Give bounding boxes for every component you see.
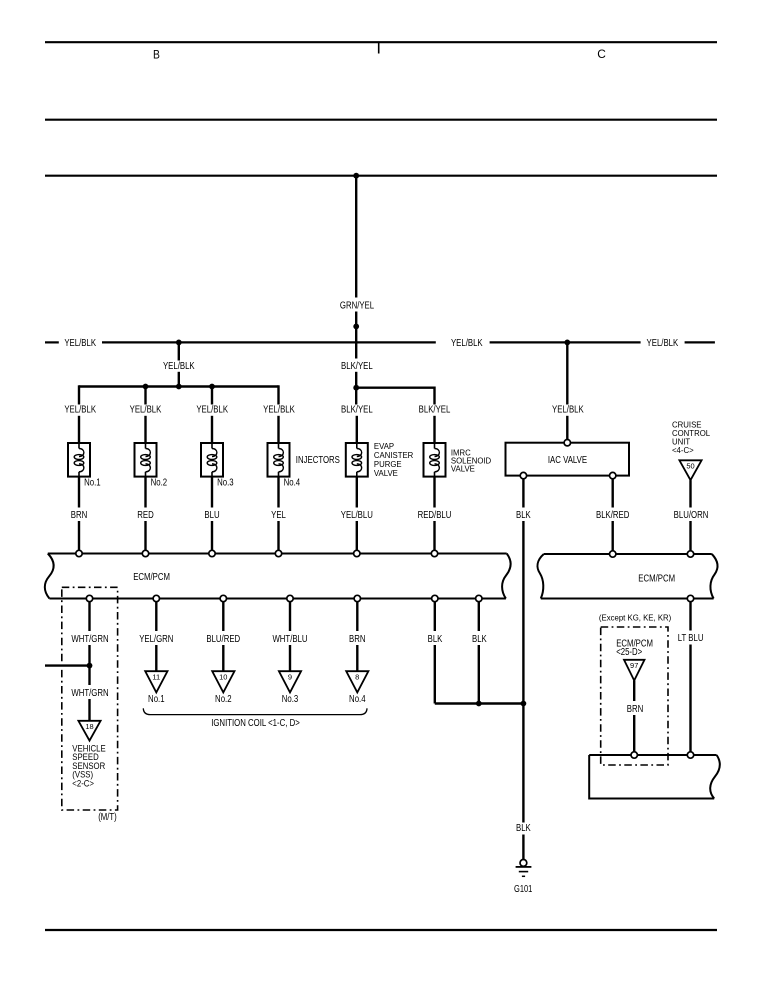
svg-text:YEL/BLK: YEL/BLK (64, 405, 96, 416)
svg-text:C: C (597, 47, 606, 61)
svg-text:WHT/BLU: WHT/BLU (272, 634, 307, 645)
YEL/BLK bus segment 2 (102, 341, 436, 343)
injector coil No.4 (268, 443, 290, 477)
svg-text:WHT/GRN: WHT/GRN (71, 634, 108, 645)
ground symbol G101 (516, 860, 532, 877)
wire BLK/RED from IAC valve (612, 479, 614, 508)
wire BLK to ground (522, 704, 524, 823)
junction BLK/YEL branch (353, 385, 359, 391)
svg-text:No.1: No.1 (148, 694, 165, 705)
YEL/BLK bus: left stub (45, 341, 59, 343)
wire BLK/YEL continues to branch junction (355, 372, 357, 388)
svg-text:No.3: No.3 (217, 478, 234, 489)
wire BLU from coil to ECM/PCM (211, 477, 213, 508)
wire YEL/BLU from coil to ECM/PCM (356, 477, 358, 508)
wire BRN from coil to ECM/PCM (78, 477, 80, 508)
wire drop to EVAP valve (355, 388, 357, 405)
pin ECM/PCM top (No.4 injector) (275, 550, 281, 556)
svg-text:ECM/PCM: ECM/PCM (638, 574, 675, 585)
page rule 2 (45, 119, 717, 121)
svg-text:GRN/YEL: GRN/YEL (340, 300, 375, 311)
wire BLK (right) from ECM/PCM (478, 602, 480, 631)
pin bottom-right box (LT BLU) (687, 752, 693, 758)
connector triangle 11 (ignition coil No.1) (145, 671, 167, 692)
svg-text:(Except KG, KE, KR): (Except KG, KE, KR) (599, 614, 672, 623)
pin ECM/PCM right bottom (LT BLU) (687, 595, 693, 601)
pin ECM/PCM top (EVAP) (354, 550, 360, 556)
svg-text:(M/T): (M/T) (98, 812, 117, 823)
svg-text:BLK: BLK (516, 510, 531, 521)
svg-text:18: 18 (85, 724, 93, 731)
svg-text:PURGE: PURGE (374, 460, 402, 469)
svg-text:VALVE: VALVE (451, 464, 475, 473)
wire YEL/GRN to ignition coil No.1 (155, 602, 157, 631)
pin ECM/PCM bottom (ignition coil No.3) (287, 595, 293, 601)
svg-text:BLK: BLK (516, 823, 531, 834)
injector coil No.1 (68, 443, 90, 477)
svg-text:CANISTER: CANISTER (374, 451, 414, 460)
ECM/PCM box (left) (45, 554, 511, 599)
svg-text:WHT/GRN: WHT/GRN (71, 688, 108, 699)
svg-text:No.4: No.4 (349, 694, 366, 705)
connector triangle 9 (ignition coil No.3) (279, 671, 301, 692)
junction injector No.3 (209, 384, 215, 390)
pin ECM/PCM top (No.3 injector) (209, 550, 215, 556)
wire BRN from connector 97 (633, 681, 635, 702)
wire YEL from coil to ECM/PCM (277, 477, 279, 508)
wire BRN to ignition coil No.4 (356, 602, 358, 631)
junction with IAC BLK wire (521, 701, 527, 707)
IMRC solenoid valve coil (424, 443, 446, 477)
wire joining BLK grounds (435, 702, 524, 704)
wire WHT/GRN from ECM/PCM (88, 602, 90, 631)
svg-text:50: 50 (686, 464, 694, 471)
svg-text:BLU/RED: BLU/RED (206, 634, 240, 645)
svg-text:No.3: No.3 (282, 694, 299, 705)
svg-text:YEL/GRN: YEL/GRN (139, 634, 173, 645)
svg-text:9: 9 (288, 675, 292, 682)
wire into injector coil (277, 416, 279, 443)
pin ECM/PCM bottom (VSS WHT/GRN) (86, 595, 92, 601)
pin IAC valve bottom right (610, 472, 616, 478)
svg-text:No.2: No.2 (151, 478, 168, 489)
svg-text:No.2: No.2 (215, 694, 232, 705)
connector triangle 50 (cruise control unit) (679, 460, 701, 480)
pin ECM/PCM bottom (BLK ground 1) (432, 595, 438, 601)
svg-text:YEL/BLK: YEL/BLK (64, 338, 96, 349)
dash-dot option box (Except KG, KE, KR) (601, 627, 668, 765)
header tick between B and C (378, 42, 380, 53)
svg-text:RED: RED (137, 510, 154, 521)
svg-text:YEL/BLK: YEL/BLK (552, 405, 584, 416)
svg-text:BLK/RED: BLK/RED (596, 510, 629, 521)
pin ECM/PCM bottom (BLK ground 2) (476, 595, 482, 601)
junction feed point (176, 384, 182, 390)
pin ECM/PCM bottom (ignition coil No.4) (354, 595, 360, 601)
junction on bus at GRN/YEL tap (353, 173, 359, 179)
junction dot above YEL/BLK bus (353, 324, 359, 330)
svg-text:B: B (153, 47, 160, 61)
wire WHT/GRN continues (88, 666, 90, 685)
injector coil No.3 (201, 443, 223, 477)
svg-text:BLK/YEL: BLK/YEL (341, 361, 373, 372)
wire RED from coil to ECM/PCM (144, 477, 146, 508)
svg-text:<4-C>: <4-C> (672, 446, 694, 455)
wire GRN/YEL vertical from bus (355, 176, 357, 298)
label ECM/PCM <25-D> (616, 639, 653, 658)
svg-text:No.1: No.1 (84, 478, 101, 489)
svg-text:<25-D>: <25-D> (616, 647, 642, 658)
svg-text:No.4: No.4 (284, 478, 301, 489)
svg-text:97: 97 (630, 663, 638, 670)
svg-text:BRN: BRN (71, 510, 88, 521)
injector coil No.2 (135, 443, 157, 477)
page rule top (row B/C header line) (45, 41, 717, 43)
wire WHT/BLU to ignition coil No.3 (289, 602, 291, 631)
svg-text:G101: G101 (514, 884, 533, 895)
wire BLU/RED to ignition coil No.2 (222, 602, 224, 631)
junction injector No.2 (143, 384, 149, 390)
svg-text:BLK: BLK (472, 634, 487, 645)
junction BLK right (476, 701, 482, 707)
wire into IMRC coil (433, 416, 435, 443)
stub wire to page left (45, 664, 90, 666)
pin ECM/PCM right top (BLU/ORN) (687, 551, 693, 557)
svg-text:YEL: YEL (271, 510, 286, 521)
IAC valve feed wire YEL/BLK (566, 342, 568, 404)
corner drop injector No.1 (78, 385, 80, 404)
pin ECM/PCM top (No.2 injector) (142, 550, 148, 556)
junction: IAC valve feed tap (564, 340, 570, 346)
pin ECM/PCM top (IMRC) (431, 550, 437, 556)
svg-text:11: 11 (152, 675, 160, 682)
YEL/BLK bus right stub (685, 341, 715, 343)
wire RED/BLU from coil to ECM/PCM (433, 477, 435, 508)
pin ECM/PCM bottom (ignition coil No.2) (220, 595, 226, 601)
svg-text:BRN: BRN (627, 704, 644, 715)
junction: injector feed tap (176, 340, 182, 346)
svg-text:<2-C>: <2-C> (72, 779, 94, 790)
page rule bottom (45, 929, 717, 931)
svg-text:8: 8 (355, 675, 359, 682)
label CRUISE CONTROL UNIT <4-C> (672, 421, 711, 456)
svg-text:BLK: BLK (428, 634, 443, 645)
svg-text:YEL/BLK: YEL/BLK (130, 405, 162, 416)
pin bottom-right box (BRN) (631, 752, 637, 758)
connector triangle 18 (VSS) (78, 721, 100, 741)
svg-text:RED/BLU: RED/BLU (418, 510, 452, 521)
label VEHICLE SPEED SENSOR (VSS) <2-C> (72, 743, 105, 789)
svg-text:YEL/BLK: YEL/BLK (196, 405, 228, 416)
wire into injector coil (78, 416, 80, 443)
wire into EVAP coil (356, 416, 358, 443)
svg-text:ECM/PCM: ECM/PCM (133, 572, 170, 583)
wire BLK from IAC valve (522, 479, 524, 508)
svg-text:BLK/YEL: BLK/YEL (419, 405, 451, 416)
IAC VALVE box (506, 443, 630, 476)
svg-text:EVAP: EVAP (374, 442, 394, 451)
svg-text:YEL/BLK: YEL/BLK (263, 405, 295, 416)
wire GRN/YEL continues (355, 312, 357, 359)
pin into IAC valve (top) (564, 440, 570, 446)
injector distribution line (79, 385, 279, 387)
svg-text:VALVE: VALVE (374, 469, 398, 478)
connector triangle 8 (ignition coil No.4) (346, 671, 368, 692)
pin IAC valve bottom left (520, 472, 526, 478)
wire into injector coil (211, 416, 213, 443)
wire LT BLU from ECM/PCM (689, 602, 691, 631)
svg-text:YEL/BLK: YEL/BLK (451, 338, 483, 349)
wire branch BLK/YEL horizontal (356, 387, 434, 389)
svg-text:BLU: BLU (204, 510, 219, 521)
wire continues to distribution line (178, 372, 180, 387)
pin ECM/PCM top (No.1 injector) (76, 550, 82, 556)
label EVAP CANISTER PURGE VALVE (374, 442, 414, 478)
bracket under ignition coil connectors (143, 708, 367, 714)
svg-text:INJECTORS: INJECTORS (296, 455, 340, 466)
junction WHT/GRN stub (87, 663, 93, 669)
svg-text:YEL/BLU: YEL/BLU (341, 510, 373, 521)
connector triangle 10 (ignition coil No.2) (212, 671, 234, 692)
bus line (hot feed) across page (45, 175, 717, 177)
corner drop injector No.4 (277, 385, 279, 404)
svg-text:LT BLU: LT BLU (678, 633, 704, 644)
svg-text:IAC VALVE: IAC VALVE (548, 455, 587, 466)
svg-text:IGNITION COIL <1-C, D>: IGNITION COIL <1-C, D> (211, 718, 300, 729)
wire into injector coil (144, 416, 146, 443)
component box (bottom right) (589, 755, 720, 799)
svg-text:BRN: BRN (349, 634, 366, 645)
wire BLU/ORN from cruise control (689, 480, 691, 507)
svg-text:10: 10 (219, 675, 227, 682)
dash-dot option box (VSS / M/T) (62, 587, 118, 810)
YEL/BLK bus segment 3 (490, 341, 641, 343)
svg-text:BLK/YEL: BLK/YEL (341, 405, 373, 416)
pin ECM/PCM bottom (ignition coil No.1) (153, 595, 159, 601)
ECM/PCM box (right) (538, 554, 718, 599)
wire drop to IMRC valve (433, 387, 435, 405)
EVAP canister purge valve coil (346, 443, 368, 477)
svg-text:YEL/BLK: YEL/BLK (647, 338, 679, 349)
wire YEL/BLK feed to injector distribution (178, 342, 180, 360)
label IMRC SOLENOID VALVE (451, 448, 492, 473)
wire BLK (left) from ECM/PCM (434, 602, 436, 631)
svg-text:YEL/BLK: YEL/BLK (163, 361, 195, 372)
pin ECM/PCM right top (BLK/RED) (610, 551, 616, 557)
connector triangle 97 (ECM/PCM 25-D) (624, 660, 645, 681)
svg-text:BLU/ORN: BLU/ORN (674, 510, 709, 521)
